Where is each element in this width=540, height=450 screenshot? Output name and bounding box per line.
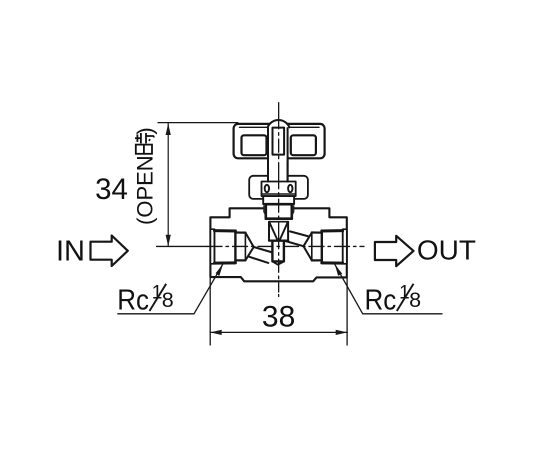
label Rc1/8 right	[365, 283, 422, 317]
handle right window	[291, 135, 316, 155]
svg-text:34: 34	[95, 173, 128, 206]
left port hex flat	[215, 230, 236, 263]
leader arrow left	[216, 264, 223, 276]
right port face plate	[343, 229, 347, 264]
leader line right Rc	[335, 264, 442, 314]
svg-text:OUT: OUT	[417, 234, 476, 265]
label OPEN (rotated)	[132, 127, 157, 225]
IN block arrow	[91, 236, 128, 267]
OUT block arrow	[375, 236, 414, 266]
dome cap	[268, 120, 290, 127]
label Rc1/8 left	[117, 283, 174, 317]
left port hex corner line	[234, 231, 236, 263]
packing nut corner ellipse left	[265, 185, 269, 192]
bonnet flange	[249, 176, 308, 199]
gland hex section	[266, 204, 292, 219]
handle wings	[234, 124, 325, 158]
dim 34 arrow up	[166, 123, 171, 135]
centerline end dot	[278, 295, 280, 297]
dim 38 extension left	[209, 278, 211, 346]
right port cone	[304, 233, 312, 261]
packing nut lower	[263, 196, 294, 204]
handle left window	[242, 135, 267, 155]
leader line left Rc	[118, 264, 223, 314]
right port hex flat	[322, 230, 343, 263]
left port cone	[245, 233, 253, 261]
needle lower stem	[272, 241, 284, 265]
horizontal centerline	[207, 245, 364, 247]
dim 38 line	[210, 331, 347, 333]
leader arrow right	[335, 264, 342, 276]
svg-text:(OPEN: (OPEN	[132, 155, 157, 225]
horizontal centerline lead	[157, 245, 207, 247]
left port inner flat	[235, 232, 245, 260]
right port hex corner line	[321, 231, 323, 263]
handle top inner line	[240, 126, 320, 128]
svg-text:Rc: Rc	[365, 284, 397, 316]
svg-text:Rc: Rc	[117, 284, 149, 316]
dim 34 extension line top	[158, 122, 238, 124]
vertical centerline	[278, 103, 280, 292]
svg-text:8: 8	[409, 288, 421, 312]
packing nut corner ellipse right	[288, 185, 292, 192]
dim 38 extension right	[346, 278, 348, 345]
flow passage diagonals right	[285, 231, 308, 246]
svg-text:IN: IN	[56, 236, 85, 268]
dim 38 arrow right	[336, 330, 348, 335]
valve body	[210, 208, 346, 281]
kanji toki	[135, 133, 154, 154]
gland chamfer wedge right	[293, 205, 295, 216]
svg-text:38: 38	[262, 300, 295, 333]
right port inner flat	[312, 232, 322, 260]
left port face plate	[210, 229, 214, 264]
dim 34 line	[167, 123, 169, 246]
gland chamfer wedge left	[263, 205, 265, 216]
flow passage diagonals left	[249, 247, 273, 263]
packing nut upper band	[262, 182, 296, 197]
stem through handle	[268, 125, 288, 182]
screw inside handle	[273, 128, 285, 155]
dim 38 arrow left	[210, 330, 222, 335]
needle cone chamber	[269, 222, 288, 241]
dim 34 arrow down	[166, 235, 171, 247]
svg-text:): )	[132, 127, 157, 134]
svg-text:8: 8	[162, 288, 174, 312]
stem shaft	[268, 126, 288, 182]
